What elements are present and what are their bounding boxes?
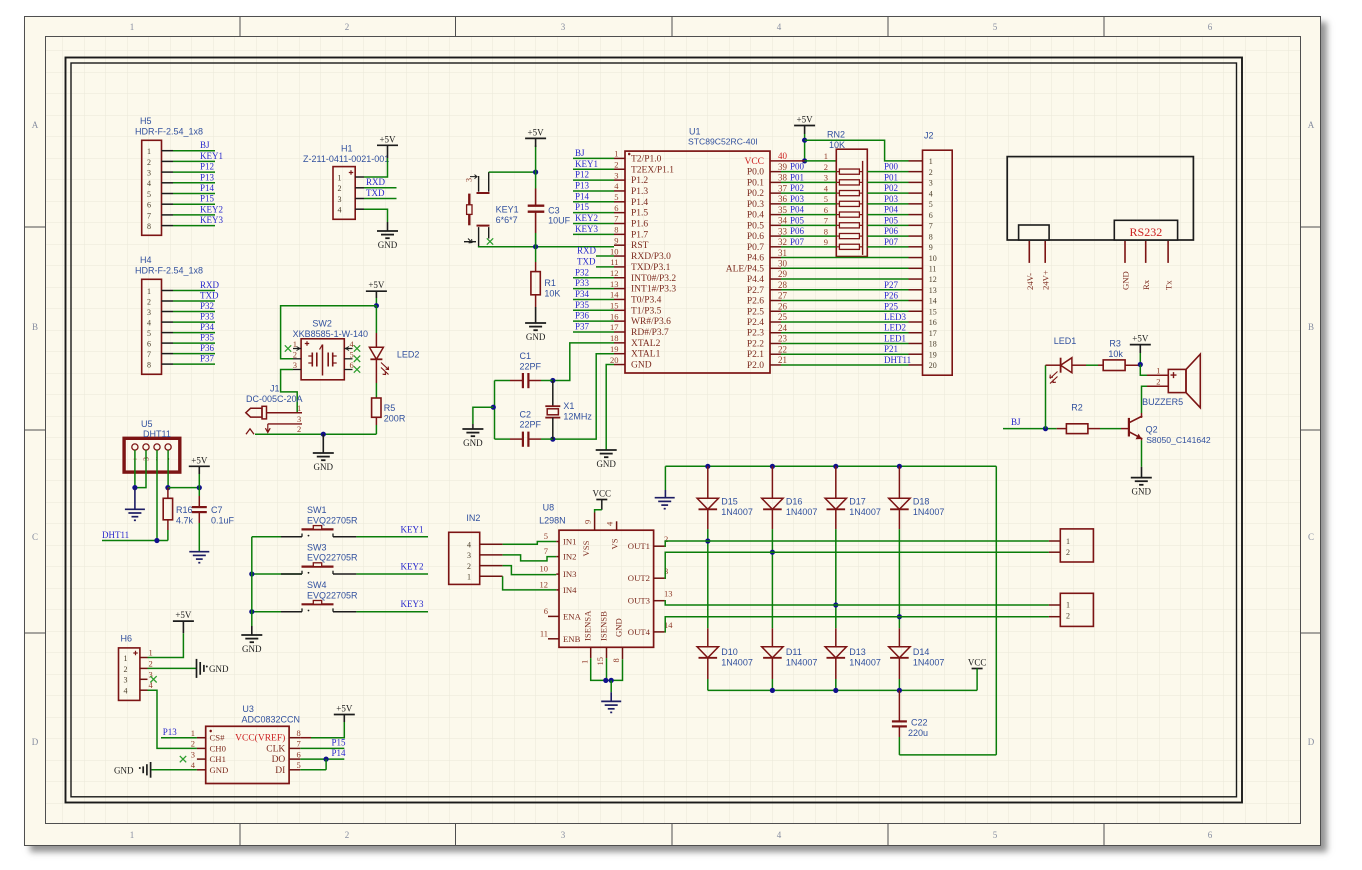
svg-text:1N4007: 1N4007 xyxy=(721,507,753,517)
ground sideways at U3 xyxy=(114,762,151,778)
wire H5 pin8 net KEY3 xyxy=(162,215,224,226)
svg-text:32: 32 xyxy=(778,237,787,247)
wire R16 top to +5V node xyxy=(168,487,199,489)
svg-text:P2.3: P2.3 xyxy=(747,329,764,339)
label C3 xyxy=(548,205,571,225)
wire OUT2 row xyxy=(665,552,1061,578)
svg-text:A: A xyxy=(32,120,39,130)
resistor R1 xyxy=(531,272,540,295)
wire SW4 left xyxy=(252,611,302,613)
svg-text:3: 3 xyxy=(614,170,618,180)
label J1 xyxy=(246,384,303,405)
wire H4 pin2 net TXD xyxy=(162,291,219,302)
svg-text:P03: P03 xyxy=(790,194,805,204)
junction DO/DI xyxy=(324,757,329,762)
svg-text:3: 3 xyxy=(464,178,474,182)
svg-text:D: D xyxy=(32,737,39,747)
svg-text:IN2: IN2 xyxy=(466,513,480,523)
svg-text:17: 17 xyxy=(610,322,619,332)
svg-text:12: 12 xyxy=(610,268,619,278)
transistor Q2 S8050 xyxy=(1129,413,1142,440)
wire U1/J2 row pin23 xyxy=(781,333,923,343)
wire U1/J2 row pin34 xyxy=(781,215,923,225)
svg-text:GND: GND xyxy=(242,644,262,654)
svg-text:6: 6 xyxy=(350,360,354,370)
svg-text:7: 7 xyxy=(929,222,933,231)
svg-text:DO: DO xyxy=(272,755,286,765)
stub U8 ground xyxy=(610,680,612,701)
svg-text:37: 37 xyxy=(778,183,788,193)
wire U1/J2 row pin30 xyxy=(781,267,923,269)
svg-text:P34: P34 xyxy=(575,289,590,299)
sensor U5 DHT11 xyxy=(124,438,180,472)
svg-text:SW3: SW3 xyxy=(307,542,327,552)
wire U5 pin1 down xyxy=(134,450,136,488)
buzzer BUZZER5 xyxy=(1156,354,1200,408)
svg-text:7: 7 xyxy=(147,211,151,220)
svg-text:INT0#/P3.2: INT0#/P3.2 xyxy=(631,274,676,284)
junction J1 GND xyxy=(321,432,326,437)
svg-text:1N4007: 1N4007 xyxy=(913,507,945,517)
ground sideways at H6 xyxy=(197,659,229,678)
label R16 xyxy=(176,505,194,525)
junction bottom rail xyxy=(833,688,838,693)
capacitor C2 xyxy=(495,432,553,447)
H1 pin stubs xyxy=(355,177,364,209)
connector H5 xyxy=(142,140,162,235)
label C7 xyxy=(211,505,235,525)
diode D10 1N4007 xyxy=(697,628,718,690)
svg-text:U1: U1 xyxy=(689,127,701,137)
wire IN2 pin3 to IN2 xyxy=(503,555,557,561)
svg-text:OUT4: OUT4 xyxy=(628,627,651,637)
junction left rail xyxy=(491,405,496,410)
capacitor C1 xyxy=(495,373,553,388)
svg-text:T2/P1.0: T2/P1.0 xyxy=(631,154,662,164)
svg-text:P32: P32 xyxy=(575,267,589,277)
svg-text:2: 2 xyxy=(147,297,151,306)
IC U8 L298N xyxy=(540,513,674,666)
svg-text:7: 7 xyxy=(147,350,151,359)
svg-text:VS: VS xyxy=(610,538,620,549)
junction row D16 xyxy=(770,550,775,555)
wire OUT4 row xyxy=(665,617,1061,632)
svg-text:C7: C7 xyxy=(211,505,223,515)
svg-text:HDR-F-2.54_1x8: HDR-F-2.54_1x8 xyxy=(135,266,203,276)
svg-text:XTAL1: XTAL1 xyxy=(631,350,661,360)
junction top rail D18 xyxy=(897,464,902,469)
wire U1 pin3 net P12 xyxy=(573,170,614,181)
wire U1/J2 row pin27 xyxy=(781,291,923,301)
label LED2 xyxy=(397,350,420,360)
svg-text:OUT2: OUT2 xyxy=(628,573,650,583)
wire U1 pin16 net P36 xyxy=(573,311,614,322)
svg-text:1N4007: 1N4007 xyxy=(721,658,753,668)
svg-text:GND: GND xyxy=(114,765,134,775)
wire H5 pin5 net P14 xyxy=(162,183,216,194)
svg-text:P1.6: P1.6 xyxy=(631,220,648,230)
connector J2 xyxy=(923,150,953,375)
label H4 refdes xyxy=(135,255,203,276)
svg-text:220u: 220u xyxy=(908,728,928,738)
svg-text:P26: P26 xyxy=(884,291,899,301)
svg-text:29: 29 xyxy=(778,269,788,279)
wire XTAL1 to C2 xyxy=(553,354,614,439)
svg-text:KEY2: KEY2 xyxy=(200,204,223,214)
svg-text:P0.1: P0.1 xyxy=(747,178,764,188)
svg-text:1: 1 xyxy=(614,149,618,159)
svg-text:4: 4 xyxy=(147,179,151,188)
wire U3 DI bridge xyxy=(300,759,326,770)
wire H5 pin6 net P15 xyxy=(162,194,216,205)
svg-text:KEY1: KEY1 xyxy=(200,151,223,161)
svg-text:ENA: ENA xyxy=(563,611,582,621)
wire KEY1 bottom / RST net xyxy=(478,246,614,248)
wire diode top rail xyxy=(665,465,996,467)
svg-text:18: 18 xyxy=(929,340,937,349)
wire U1 pin7 net KEY2 xyxy=(573,213,614,224)
label KEY1 refdes xyxy=(496,205,519,225)
connector motor P1 xyxy=(1060,529,1093,562)
svg-text:D14: D14 xyxy=(913,647,930,657)
svg-text:1: 1 xyxy=(1066,537,1070,546)
svg-text:T1/P3.5: T1/P3.5 xyxy=(631,306,662,316)
svg-text:DI: DI xyxy=(275,766,285,776)
svg-text:6: 6 xyxy=(147,201,151,210)
svg-text:KEY2: KEY2 xyxy=(575,213,598,223)
svg-text:U5: U5 xyxy=(141,419,153,429)
svg-text:15: 15 xyxy=(929,307,937,316)
svg-text:P0.7: P0.7 xyxy=(747,243,764,253)
svg-text:6: 6 xyxy=(1208,22,1213,32)
svg-text:P32: P32 xyxy=(200,301,214,311)
svg-text:RD#/P3.7: RD#/P3.7 xyxy=(631,328,669,338)
svg-text:LED3: LED3 xyxy=(884,312,906,322)
svg-text:KEY3: KEY3 xyxy=(575,224,598,234)
svg-text:BJ: BJ xyxy=(575,148,585,158)
svg-text:T2EX/P1.1: T2EX/P1.1 xyxy=(631,165,674,175)
svg-text:P0.4: P0.4 xyxy=(747,211,764,221)
svg-text:7: 7 xyxy=(824,216,828,226)
wire H6 pin2 gnd xyxy=(148,667,197,669)
svg-text:10: 10 xyxy=(610,246,619,256)
svg-text:P33: P33 xyxy=(200,312,215,322)
wire column D15 xyxy=(707,529,709,628)
svg-text:DHT11: DHT11 xyxy=(143,429,171,439)
svg-text:P2.1: P2.1 xyxy=(747,350,764,360)
svg-text:C1: C1 xyxy=(520,351,532,361)
junction top rail D16 xyxy=(770,464,775,469)
svg-text:36: 36 xyxy=(778,194,788,204)
no-connect SW2 pin6 xyxy=(354,366,360,372)
no-connect SW2 pin1 xyxy=(285,345,291,351)
svg-text:CS#: CS# xyxy=(210,733,226,743)
svg-text:C22: C22 xyxy=(911,718,928,728)
svg-text:U8: U8 xyxy=(543,503,555,513)
svg-text:R2: R2 xyxy=(1071,403,1083,413)
wire U1/J2 row pin26 xyxy=(781,301,923,311)
power flag +5V right xyxy=(794,115,815,126)
wire U1 pin12 net P32 xyxy=(573,267,614,278)
svg-text:2: 2 xyxy=(1066,548,1070,557)
svg-text:2: 2 xyxy=(345,830,350,840)
LED LED1 xyxy=(1046,358,1099,384)
svg-text:1: 1 xyxy=(147,287,151,296)
wire U1 pin2 net KEY1 xyxy=(573,159,614,170)
wire +5V to J2 pin1 xyxy=(805,140,909,161)
label U3 xyxy=(242,704,301,725)
wire U1/J2 row pin31 xyxy=(781,257,923,259)
junction XTAL2 node xyxy=(550,378,555,383)
svg-text:ENB: ENB xyxy=(563,634,581,644)
no-connect U3 CH1 xyxy=(180,756,186,762)
svg-text:GND: GND xyxy=(463,438,483,448)
label U8 xyxy=(539,503,566,526)
svg-text:3: 3 xyxy=(929,179,933,188)
wire C22 bottom xyxy=(899,754,996,756)
power flag +5V at R3 xyxy=(1130,334,1151,345)
svg-text:KEY3: KEY3 xyxy=(401,599,424,609)
svg-text:4: 4 xyxy=(467,540,471,549)
svg-text:HDR-F-2.54_1x8: HDR-F-2.54_1x8 xyxy=(135,127,203,137)
svg-text:+5V: +5V xyxy=(1132,334,1149,344)
wire U1 pin6 net P15 xyxy=(573,202,614,213)
svg-text:1: 1 xyxy=(130,830,135,840)
power flag +5V at H6 xyxy=(173,610,194,621)
svg-text:ALE/P4.5: ALE/P4.5 xyxy=(726,264,765,274)
svg-text:P14: P14 xyxy=(332,748,347,758)
wire H5 pin7 net KEY2 xyxy=(162,204,224,215)
junction U8 gnd b xyxy=(609,678,614,683)
svg-text:GND: GND xyxy=(378,240,398,250)
svg-text:D11: D11 xyxy=(786,647,802,657)
svg-text:J2: J2 xyxy=(924,131,934,141)
svg-text:D17: D17 xyxy=(849,497,866,507)
no-connect H6 pin3 xyxy=(150,676,156,682)
svg-text:GND: GND xyxy=(314,462,334,472)
wire KEY1 top xyxy=(489,171,536,173)
wire U1 pin11 net TXD xyxy=(577,256,614,267)
junction C7 top xyxy=(197,485,202,490)
label H1 refdes xyxy=(303,144,389,165)
svg-text:14: 14 xyxy=(929,297,937,306)
svg-text:+5V: +5V xyxy=(528,127,545,137)
svg-text:12MHz: 12MHz xyxy=(563,411,592,421)
wire U1 pin17 net P37 xyxy=(573,322,614,333)
svg-text:1: 1 xyxy=(124,654,128,663)
stub +5V flag xyxy=(535,138,537,147)
svg-text:24V+: 24V+ xyxy=(1041,270,1051,290)
svg-text:GND: GND xyxy=(526,332,546,342)
svg-text:LED1: LED1 xyxy=(1054,336,1077,346)
label H6 refdes xyxy=(121,634,133,644)
svg-text:GND: GND xyxy=(596,459,616,469)
svg-text:27: 27 xyxy=(778,291,788,301)
junction BJ xyxy=(1043,426,1048,431)
wire column D18 xyxy=(898,529,900,628)
svg-text:8: 8 xyxy=(297,728,301,738)
junction +5V top xyxy=(802,138,807,143)
svg-text:21: 21 xyxy=(778,355,787,365)
wire H5 pin1 net BJ xyxy=(162,140,216,151)
junction top rail D17 xyxy=(833,464,838,469)
svg-text:1: 1 xyxy=(293,339,297,349)
svg-text:P1.4: P1.4 xyxy=(631,198,648,208)
svg-text:16: 16 xyxy=(929,318,937,327)
svg-text:10: 10 xyxy=(540,564,549,574)
label RN2 xyxy=(827,130,845,150)
svg-text:P12: P12 xyxy=(575,170,589,180)
ground GND at J1 xyxy=(313,453,334,472)
label D17 xyxy=(849,497,881,518)
RS232 pin Rx xyxy=(1141,241,1151,290)
svg-text:KEY2: KEY2 xyxy=(401,562,424,572)
svg-text:P35: P35 xyxy=(575,300,590,310)
wire U1/J2 row pin24 xyxy=(781,323,923,333)
svg-text:GND: GND xyxy=(209,664,229,674)
label U1 refdes xyxy=(688,127,758,147)
wire SW3 black left xyxy=(281,573,302,575)
svg-text:P07: P07 xyxy=(884,237,899,247)
wire U8 bottom pins xyxy=(591,658,623,680)
svg-text:+5V: +5V xyxy=(191,455,208,465)
ground GND keys xyxy=(241,635,262,654)
svg-text:P05: P05 xyxy=(790,215,805,225)
svg-text:P2.5: P2.5 xyxy=(747,307,764,317)
svg-text:P0.0: P0.0 xyxy=(747,168,764,178)
junction DHT11 xyxy=(154,538,159,543)
svg-text:BJ: BJ xyxy=(200,140,210,150)
svg-text:3: 3 xyxy=(124,676,128,685)
svg-text:EVQ22705R: EVQ22705R xyxy=(307,516,358,526)
svg-text:IN2: IN2 xyxy=(563,552,577,562)
svg-text:5: 5 xyxy=(614,192,618,202)
svg-text:1N4007: 1N4007 xyxy=(786,507,818,517)
RS232 pin Tx xyxy=(1164,241,1174,290)
wire SW4 black left xyxy=(281,611,302,613)
svg-text:DHT11: DHT11 xyxy=(884,355,911,365)
crystal X1 xyxy=(545,381,560,440)
junction SW4 xyxy=(249,609,254,614)
svg-text:1: 1 xyxy=(824,151,828,161)
wire XTAL2 to C1 xyxy=(553,343,614,381)
connector IN2 xyxy=(449,532,503,584)
svg-text:P0.2: P0.2 xyxy=(747,189,764,199)
svg-text:2: 2 xyxy=(824,162,828,172)
svg-text:P35: P35 xyxy=(200,333,215,343)
wire U1 pin10 net RXD xyxy=(577,246,614,256)
wire U1/J2 row pin22 xyxy=(781,344,923,354)
svg-text:6: 6 xyxy=(1208,830,1213,840)
switch SW3 xyxy=(302,563,334,574)
connector H6 xyxy=(119,648,154,701)
wire U1/J2 row pin28 xyxy=(781,280,923,290)
svg-text:5: 5 xyxy=(147,329,151,338)
label C22 xyxy=(908,718,928,738)
junction SW2 +5V xyxy=(374,303,379,308)
svg-text:8: 8 xyxy=(147,222,151,231)
svg-text:4: 4 xyxy=(124,687,128,696)
wire H6 pin4 to U3 CH0 xyxy=(148,690,197,748)
svg-text:GND: GND xyxy=(614,618,624,637)
diode D11 1N4007 xyxy=(762,628,783,690)
svg-text:P34: P34 xyxy=(200,322,215,332)
label J2 refdes xyxy=(924,131,934,141)
svg-text:D16: D16 xyxy=(786,497,803,507)
junction bottom rail xyxy=(897,688,902,693)
svg-text:5: 5 xyxy=(297,760,301,770)
power flag VCC right xyxy=(968,658,987,669)
stub +5V U5 xyxy=(198,466,200,487)
svg-text:S8050_C141642: S8050_C141642 xyxy=(1146,435,1211,445)
junction at C3 top xyxy=(533,170,538,175)
drawing border inner xyxy=(71,63,1237,797)
svg-text:U3: U3 xyxy=(242,704,254,714)
label C2 xyxy=(520,409,542,429)
wire U5 pin4 down xyxy=(167,450,169,488)
svg-text:P00: P00 xyxy=(884,162,899,172)
svg-text:4.7k: 4.7k xyxy=(176,515,194,525)
wire top rail to ground xyxy=(664,466,666,497)
svg-text:10K: 10K xyxy=(829,140,845,150)
svg-text:ISENSA: ISENSA xyxy=(583,610,593,641)
label R3 xyxy=(1108,339,1123,359)
wire OUT3 row xyxy=(665,601,1061,605)
svg-text:VCC: VCC xyxy=(593,489,612,499)
svg-text:J1: J1 xyxy=(270,384,280,394)
svg-text:31: 31 xyxy=(778,248,787,258)
svg-text:IN3: IN3 xyxy=(563,569,577,579)
svg-text:1: 1 xyxy=(929,157,933,166)
wire SW1 right net KEY1 xyxy=(333,524,428,537)
svg-text:12: 12 xyxy=(540,579,549,589)
svg-text:P2.2: P2.2 xyxy=(747,339,764,349)
IC U3 ADC0832CCN xyxy=(191,726,301,783)
svg-text:200R: 200R xyxy=(384,413,406,423)
svg-text:BJ: BJ xyxy=(1011,417,1021,427)
svg-text:RST: RST xyxy=(631,241,649,251)
junction R16 top xyxy=(165,485,170,490)
svg-text:1: 1 xyxy=(191,728,195,738)
switch SW4 xyxy=(302,601,334,612)
wire U3 CS# net P13 xyxy=(161,727,197,738)
svg-text:P06: P06 xyxy=(884,226,899,236)
label R2 xyxy=(1071,403,1083,413)
label U5 xyxy=(141,419,171,439)
wire U1 GND pin20 xyxy=(606,365,614,450)
label D11 xyxy=(786,647,818,668)
svg-text:LED1: LED1 xyxy=(884,333,906,343)
svg-text:XTAL2: XTAL2 xyxy=(631,339,661,349)
wire U3 VCC to +5V xyxy=(300,715,344,738)
svg-text:C: C xyxy=(1308,532,1314,542)
stub J1 ground xyxy=(322,434,324,453)
label SW2 xyxy=(293,319,368,340)
svg-text:2: 2 xyxy=(614,159,618,169)
svg-text:8: 8 xyxy=(614,225,618,235)
svg-text:4: 4 xyxy=(777,830,782,840)
svg-text:25: 25 xyxy=(778,312,788,322)
svg-text:5: 5 xyxy=(993,22,998,32)
wire R5 to ground net xyxy=(375,417,377,434)
svg-text:2: 2 xyxy=(293,349,297,359)
svg-text:TXD/P3.1: TXD/P3.1 xyxy=(631,263,671,273)
svg-text:TXD: TXD xyxy=(577,256,596,266)
svg-text:D10: D10 xyxy=(721,647,738,657)
svg-text:R1: R1 xyxy=(544,278,556,288)
svg-text:DC-005C-20A: DC-005C-20A xyxy=(246,394,303,404)
svg-text:SW4: SW4 xyxy=(307,580,327,590)
